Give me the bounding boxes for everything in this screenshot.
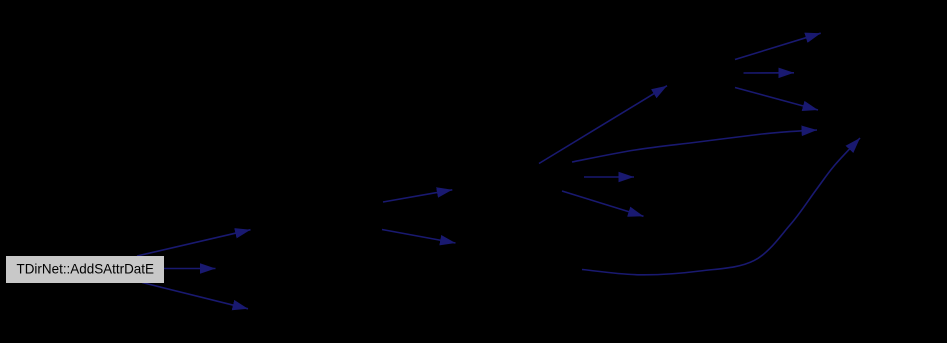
- svg-text:TDirNet::AddSAttrDatE: TDirNet::AddSAttrDatE: [17, 261, 155, 277]
